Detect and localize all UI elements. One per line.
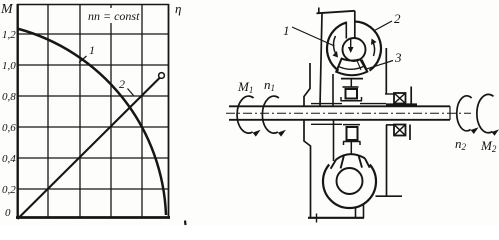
outer left wall lower xyxy=(304,120,311,217)
svg-text:η: η xyxy=(175,1,181,16)
left annulus arrow xyxy=(333,36,336,55)
label 2 leader xyxy=(375,21,393,31)
lower bearing top bar xyxy=(343,124,360,126)
svg-text:0,6: 0,6 xyxy=(2,122,16,134)
svg-text:п1: п1 xyxy=(264,77,275,93)
upper bearing square xyxy=(346,89,358,99)
lower bearing square xyxy=(347,127,358,140)
svg-text:2: 2 xyxy=(119,77,125,91)
wedge hatch lines xyxy=(357,60,367,71)
top torus input channel left xyxy=(345,22,347,39)
bottom axis xyxy=(16,216,170,219)
housing bottom line xyxy=(308,217,364,219)
bottom torus hub circle xyxy=(337,168,363,194)
lower right lip xyxy=(409,125,411,141)
svg-text:M1: M1 xyxy=(237,79,253,95)
turbine wall lower xyxy=(333,120,335,161)
upper bearing bottom bar xyxy=(341,97,363,101)
channel down arrow xyxy=(350,38,352,48)
top torus hub circle xyxy=(343,38,366,61)
left axis xyxy=(17,4,19,219)
turbine wall upper xyxy=(332,74,334,106)
label 1 leader xyxy=(292,27,335,46)
shaft top edge xyxy=(229,105,450,107)
sleeve line top xyxy=(311,103,386,105)
grid horizontals xyxy=(17,34,169,189)
top torus outer circle left part xyxy=(327,23,346,71)
top torus outer circle right part xyxy=(355,22,381,71)
bottom drain tick xyxy=(316,214,318,223)
svg-text:1: 1 xyxy=(89,43,95,57)
lower X-bearing square xyxy=(394,125,406,136)
bottom torus wedge outer arc xyxy=(336,154,365,159)
curve 2 leader xyxy=(128,89,134,96)
right wall upper xyxy=(385,48,387,94)
top border xyxy=(17,4,169,6)
svg-text:3: 3 xyxy=(394,50,402,65)
right wall lower xyxy=(386,125,388,196)
lower X stub xyxy=(386,124,394,126)
wedge flange bar xyxy=(341,78,363,80)
lower bearing bottom bar xyxy=(343,142,361,146)
shaft right end cap xyxy=(449,106,451,120)
svg-text:0,4: 0,4 xyxy=(2,153,16,165)
svg-text:1: 1 xyxy=(283,23,290,38)
inner left wall (above shaft only) xyxy=(320,13,322,107)
right border xyxy=(168,4,170,218)
bottom torus outer circle xyxy=(323,165,376,209)
upper right lip xyxy=(410,87,412,105)
svg-text:1,0: 1,0 xyxy=(2,60,16,72)
housing top line xyxy=(317,11,355,14)
upper bearing stem xyxy=(350,79,352,87)
svg-text:пп = const: пп = const xyxy=(88,9,140,23)
svg-text:п2: п2 xyxy=(455,136,467,152)
svg-text:1,2: 1,2 xyxy=(2,29,16,41)
outer left wall upper xyxy=(304,63,310,106)
shaft bottom edge xyxy=(229,119,450,121)
top torus input channel right xyxy=(354,11,356,39)
top torus wedge outline xyxy=(336,59,367,76)
upper bearing X stub xyxy=(385,93,394,95)
svg-text:0,2: 0,2 xyxy=(2,184,16,196)
left rotation arrow n1 xyxy=(262,96,279,133)
sleeve line bottom xyxy=(311,123,394,126)
right rotation arrow n2 xyxy=(457,96,472,131)
label 3 leader xyxy=(365,61,393,70)
bottom right dot xyxy=(184,221,187,226)
bottom torus drain channel xyxy=(356,205,364,218)
svg-text:M2: M2 xyxy=(480,138,497,154)
right annulus arrow xyxy=(373,41,375,56)
curve 1 leader xyxy=(79,56,87,63)
svg-text:M: M xyxy=(0,2,14,17)
grid verticals xyxy=(48,4,142,218)
curve 2 (straight line) xyxy=(18,78,161,220)
wedge inner arc line xyxy=(339,66,366,70)
svg-text:2: 2 xyxy=(394,11,401,26)
bottom torus wedge radial lines xyxy=(331,156,370,169)
svg-text:0: 0 xyxy=(5,207,11,219)
left rotation arrow M1 xyxy=(237,96,254,133)
curve 2 marker circle xyxy=(159,73,165,79)
upper bracket bar xyxy=(386,103,417,105)
curve 1 (M curve, circular arc) xyxy=(17,29,166,216)
svg-text:0,8: 0,8 xyxy=(2,91,16,103)
right rotation arrow M2 xyxy=(477,94,494,132)
upper X-bearing square xyxy=(394,93,406,104)
shaft centerline dash-dot xyxy=(226,112,471,114)
white box behind const text xyxy=(86,9,137,23)
housing top-left uptick xyxy=(318,8,320,14)
lower bearing stem xyxy=(350,142,352,155)
bottom right connector bar xyxy=(376,195,403,197)
upper bearing bracket xyxy=(343,86,359,88)
